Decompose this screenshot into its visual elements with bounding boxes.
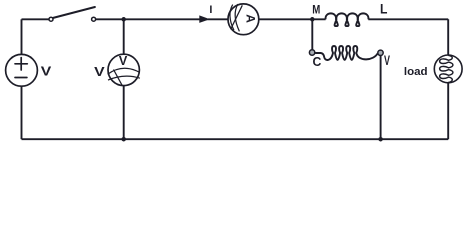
svg-text:V: V [41,65,52,79]
svg-text:V: V [384,55,390,69]
svg-text:V: V [94,65,105,79]
svg-text:L: L [380,1,387,17]
svg-text:V: V [119,54,128,68]
svg-text:I: I [209,4,212,16]
svg-text:C: C [312,55,321,69]
svg-text:M: M [312,4,320,17]
svg-text:A: A [243,14,257,23]
svg-text:load: load [404,66,428,78]
